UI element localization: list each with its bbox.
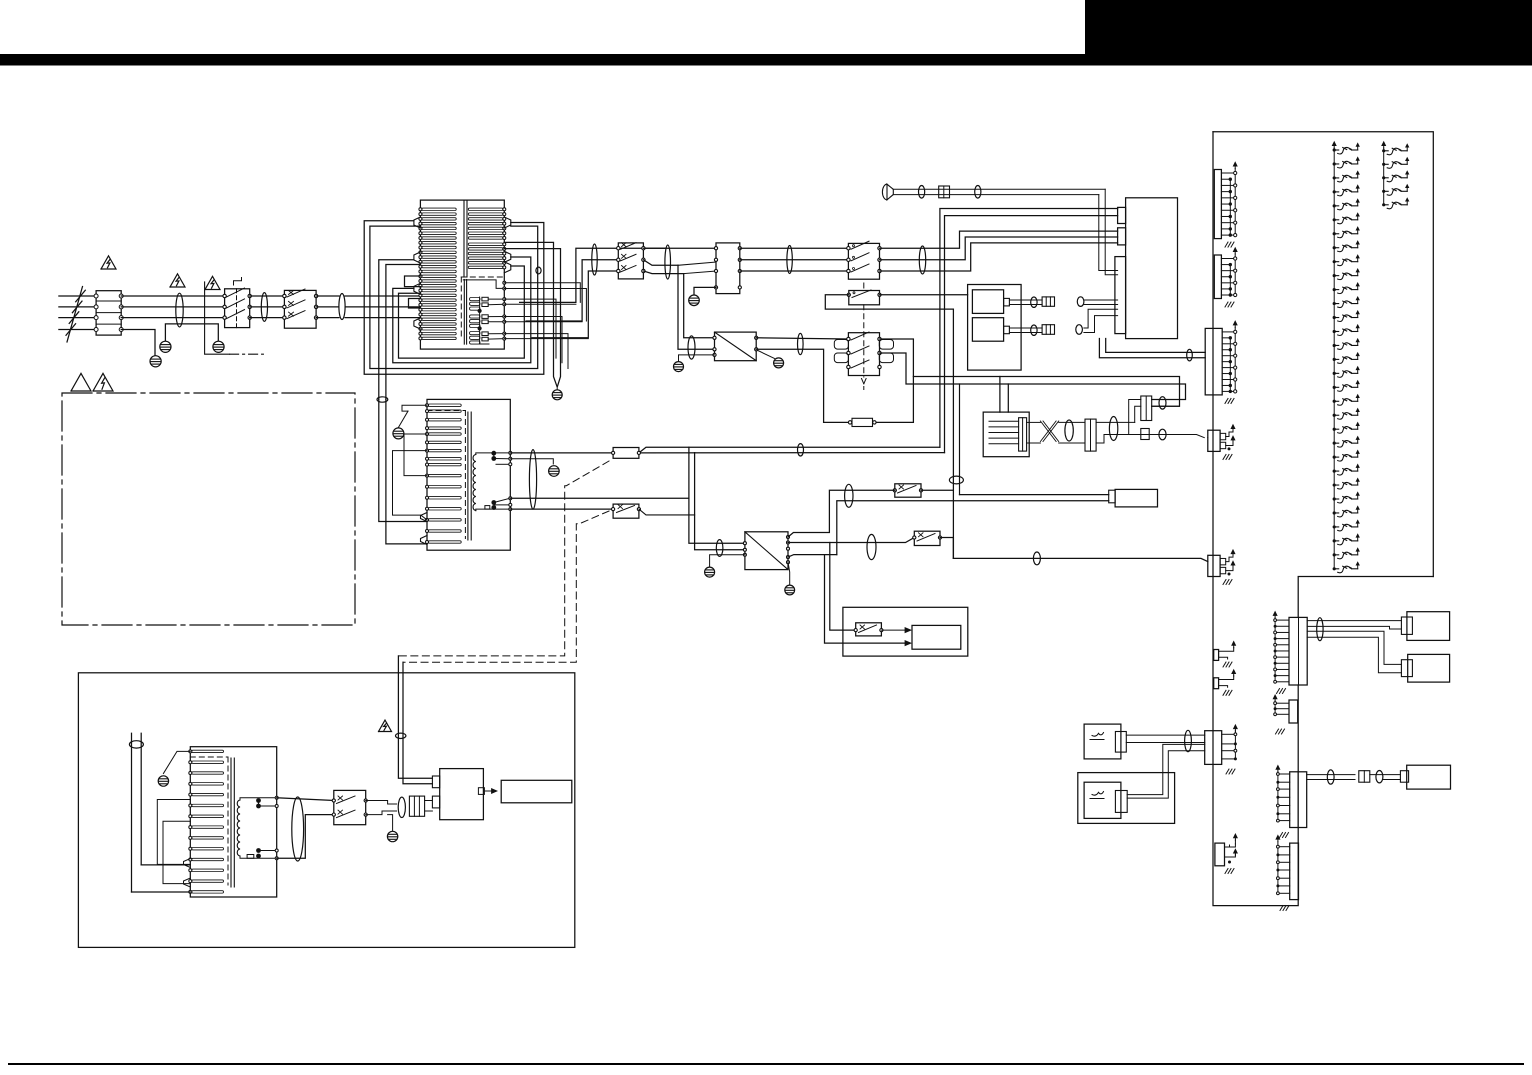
SW2 right wire to interlock box <box>880 294 968 296</box>
cable break ticks <box>76 290 86 302</box>
cable marker E31 <box>1376 771 1383 783</box>
interlock window A <box>972 290 1003 314</box>
T1 secondary output risers to breaker chain <box>520 248 665 302</box>
fuse holder FH2 <box>1042 325 1054 335</box>
U1 output port <box>478 788 484 795</box>
CB2 output wires <box>643 247 716 249</box>
T2 secondary wires to switches <box>510 452 613 454</box>
ground electrode GND9 <box>158 776 168 786</box>
SW6 output diagonal <box>639 509 695 515</box>
circuit breaker CB1 <box>284 290 316 328</box>
spare connector CN-K <box>1215 843 1225 866</box>
window A harness <box>1009 299 1042 301</box>
T3 core lines <box>230 758 232 887</box>
T1 heater output wires <box>488 298 504 300</box>
option switch pair SW7 <box>334 790 366 824</box>
aux contact switch SW2 <box>849 291 880 305</box>
motor unit MU1 <box>1407 765 1451 789</box>
cable marker E35 <box>716 540 723 557</box>
fuse holder FH1 <box>1042 297 1054 306</box>
CN-F harness <box>1307 620 1401 622</box>
wire L1-L3 to filter <box>121 295 224 297</box>
PU1 harness <box>1126 734 1204 736</box>
fan circuit wires upper <box>959 384 961 495</box>
mains input lines with cable slashes <box>59 295 96 297</box>
cable break long slash <box>67 287 83 343</box>
cable marker E6 <box>787 246 792 274</box>
contactor socket flags <box>834 340 848 350</box>
T1 primary tap wedges (left) <box>414 217 421 228</box>
fan switch out <box>921 489 953 491</box>
cable marker E20 <box>845 484 853 507</box>
inline connector DB2 <box>1141 396 1152 421</box>
heater feed arrows <box>881 629 905 631</box>
T3 secondary coil <box>237 800 240 856</box>
SSR input wire 3 to ground <box>679 355 715 361</box>
M1 feed wires from contactor <box>880 353 1186 400</box>
SSR earth diagonal <box>758 351 775 359</box>
header title block (black) <box>1085 0 1532 56</box>
option unit enclosure <box>78 673 574 948</box>
window B harness <box>1009 327 1042 329</box>
cable marker E15 <box>1065 420 1073 441</box>
cable marker E7 <box>919 246 925 274</box>
ground electrode GND10 <box>387 831 397 841</box>
T1 coil bus <box>479 297 481 344</box>
T1 heater wires to bus <box>504 299 556 358</box>
warning triangle (plain) <box>71 373 91 391</box>
control bus pair (top link) <box>940 209 1118 448</box>
cable marker E5 <box>665 245 671 279</box>
SSR2 earth <box>788 562 790 584</box>
link wires from relay board <box>639 447 940 453</box>
lamp feed droppers <box>689 447 745 543</box>
door heater drop B <box>825 555 906 644</box>
cable marker E21 <box>867 534 876 559</box>
T1 thermal fuses <box>482 297 488 301</box>
cable marker E34 <box>798 444 804 456</box>
T3 bottom taps <box>240 856 277 858</box>
ground electrode GND6 <box>674 362 684 372</box>
SSR2 out to motor connector <box>788 555 837 558</box>
cable marker E22 <box>1033 552 1040 565</box>
option control unit U1 <box>440 769 484 820</box>
T2 core lines <box>467 412 469 540</box>
footer rule line <box>8 1063 1524 1065</box>
cable marker E32 <box>1031 297 1037 307</box>
SW2 left loop wire <box>825 295 953 559</box>
PS1 connector tab CN3 <box>1115 257 1126 334</box>
cable marker E9 <box>975 186 981 199</box>
T1 primary winding left stack <box>422 208 456 210</box>
door link dashed lines <box>398 461 609 656</box>
warning triangle (shock) at relay <box>205 276 220 289</box>
cable marker E16 <box>1109 417 1117 441</box>
breaker CB2 <box>618 243 643 279</box>
FL2 output wires <box>740 247 849 249</box>
T1 secondary tap wedges (right) <box>504 217 511 228</box>
machine frame outline <box>1298 577 1433 618</box>
motor connector box MB1 <box>1115 489 1157 507</box>
window B wires stepped to connector <box>1084 309 1118 328</box>
cable marker E33 <box>1031 325 1037 335</box>
cable marker E25 (horizontal) <box>129 741 143 748</box>
PU2 harness risers <box>1127 744 1205 794</box>
T2 tap wires left <box>393 451 428 520</box>
header rule bar (black) <box>0 54 1532 66</box>
T3 tap wires <box>157 800 190 865</box>
ground electrode GND2 <box>160 341 171 352</box>
pump unit PU2 <box>1084 782 1121 818</box>
spare connector CN-J <box>1290 843 1299 900</box>
U1 tab A <box>432 776 439 788</box>
crossover wires <box>1040 421 1056 442</box>
T3 output wires <box>277 798 334 801</box>
cable marker on T2 feed <box>377 397 388 402</box>
heater contactor K1 <box>848 333 879 376</box>
lamp column 1 switches <box>1333 148 1336 151</box>
T1 tap junction dots <box>478 309 482 313</box>
heater connector CN-I <box>1290 772 1307 828</box>
SSR feed drop wires <box>678 265 715 349</box>
ground electrode GND11 <box>774 358 784 368</box>
cable marker E24 (horizontal) <box>396 733 406 738</box>
ground electrode GND13 <box>705 567 715 577</box>
T2 primary winding stack <box>428 404 461 406</box>
ground electrode GND5 <box>689 295 700 306</box>
T1 primary tap bundle left/bottom wrap <box>364 221 544 375</box>
T2 secondary top taps <box>476 453 511 455</box>
SSR2 out to fan switch <box>788 490 895 537</box>
arrow to display <box>484 790 494 792</box>
sensor connector CN-D <box>1208 430 1220 451</box>
DC power supply block PS1 <box>1126 198 1178 339</box>
cable marker E11 <box>798 333 804 354</box>
contactor link dashed + fuse loop <box>863 283 865 291</box>
T3 top taps <box>240 798 277 800</box>
cable marker E10 <box>688 336 695 359</box>
lamp connector CN-B <box>1214 255 1221 299</box>
fan unit FM2 <box>1408 654 1450 682</box>
warning triangle (shock) at option feed <box>379 720 392 731</box>
T2 tap wedges <box>421 513 428 522</box>
SW7 output wires <box>366 801 397 805</box>
solid state relay SSR2 <box>745 532 788 570</box>
cable marker E29 <box>1185 730 1192 751</box>
cable marker E26 (T3 out) <box>292 797 304 861</box>
cable marker E8 <box>919 186 925 199</box>
thermostat sensor horn <box>887 184 893 200</box>
T3 shield dashed <box>190 756 228 758</box>
fan unit FM1 <box>1407 612 1450 641</box>
window B plug <box>1004 326 1010 334</box>
earth link wire <box>165 324 218 341</box>
thermal cutout SW5 <box>613 448 639 459</box>
cable marker E12 <box>1077 297 1084 307</box>
cable marker E30 <box>1327 770 1334 784</box>
warning triangle (shock) <box>93 373 113 391</box>
T1 inner core lines <box>463 280 465 345</box>
PS1 connector tab CN1 <box>1118 207 1126 223</box>
window A wires to connector <box>1084 299 1118 301</box>
wires to transformer primary <box>316 295 339 297</box>
output connector CN-F <box>1289 617 1307 685</box>
inline connector bars <box>1359 771 1370 783</box>
cable marker E4 <box>592 244 597 275</box>
T2 secondary coil <box>473 455 476 511</box>
noise filter FL2 <box>716 243 740 294</box>
ground electrode GND8 <box>549 466 560 477</box>
PS1 output drop wires <box>1106 339 1206 353</box>
thermal fuse F1 loop <box>874 339 913 422</box>
option unit boundary box (dash-dot) <box>62 393 355 625</box>
lamp line to connector <box>953 558 1207 561</box>
interlock window B <box>972 318 1003 342</box>
motor lower wire <box>837 501 1109 555</box>
cable marker E23 (T2 secondary) <box>529 450 536 510</box>
lower branch connector <box>1141 429 1149 440</box>
cable marker E14 <box>1187 349 1193 361</box>
main relay RY1 <box>225 289 250 328</box>
SW7 earth drop <box>388 815 393 831</box>
upper branch riser <box>1135 406 1141 422</box>
lamp connector CN-A <box>1214 170 1221 239</box>
M1 plug <box>1019 418 1027 451</box>
interlock module frame <box>968 285 1022 371</box>
door heater load <box>912 625 961 649</box>
lamp column 2 bus <box>1383 143 1385 148</box>
motor module M1 <box>983 412 1029 457</box>
CN-I harness <box>1307 774 1355 776</box>
M1 connector bars <box>1085 419 1096 451</box>
cable marker E28 <box>1317 618 1323 641</box>
PS1 connector tab CN2 <box>1118 228 1126 245</box>
sensor connector CN-E <box>1208 555 1220 576</box>
T1 core lines <box>463 201 465 277</box>
T3 tap wedges <box>184 859 191 868</box>
cable marker E27 <box>398 797 405 817</box>
T3 input stubs <box>131 733 133 892</box>
thermal cutout SW6 <box>613 504 639 518</box>
terminal block TB1 <box>96 291 121 335</box>
T3 primary stack <box>192 750 224 752</box>
power switch SW1 <box>848 243 879 279</box>
T1 heater secondary coils <box>470 298 481 301</box>
T1 aux wires <box>504 283 580 303</box>
door heater drop A <box>830 543 856 631</box>
ground electrode GND3 <box>213 341 224 352</box>
warning triangle (shock) at filter <box>170 274 185 287</box>
option connector bars <box>409 796 424 816</box>
warning triangle (shock) above input <box>101 256 116 269</box>
ground electrode GND1 <box>150 356 161 367</box>
CN-D feed wire <box>1207 437 1209 439</box>
U1 tab B <box>432 796 439 808</box>
display unit V1 <box>501 780 572 803</box>
T2 primary earth <box>402 405 427 411</box>
lamp switch SW4 <box>914 531 940 545</box>
spare tab connector CN-L2 <box>1214 678 1219 689</box>
cable marker on T1 tap <box>536 267 541 274</box>
sensor connector <box>939 186 950 198</box>
SSR output wires <box>756 338 848 339</box>
ground electrode GND4 <box>552 390 562 400</box>
sensor twin line <box>893 188 1105 190</box>
relay contact symbol <box>234 278 242 286</box>
door heater switch SW8 <box>856 623 882 636</box>
main transformer T1 body <box>420 200 504 349</box>
ground electrode GND7 <box>393 428 404 439</box>
sensor drop wires <box>1105 189 1117 274</box>
cable marker E3 <box>339 294 345 320</box>
option transformer T3 body <box>190 747 276 897</box>
T1 shield dashed boundary <box>461 276 503 278</box>
T1 secondary winding right stack <box>468 208 503 210</box>
fan switch SW3 <box>895 484 921 497</box>
link drop wires into option box <box>398 656 432 778</box>
lamp connector CN-C <box>1205 328 1222 395</box>
FL2 earth wire <box>694 287 716 294</box>
cable marker E13 <box>1076 325 1083 335</box>
ground electrode GND12 <box>785 585 795 595</box>
wire N to earth <box>121 330 155 356</box>
cable marker E2 <box>261 293 267 322</box>
cable marker E1 <box>176 293 183 327</box>
lamp column 1 bus <box>1333 143 1335 148</box>
pump unit PU1 <box>1084 724 1121 759</box>
T1 aux winding circles <box>503 281 506 284</box>
T2 mid tap earth <box>510 459 553 464</box>
T1 shield drains to ground funnel <box>504 242 557 386</box>
phase risers to DC block <box>880 231 1118 248</box>
fan tap join wire <box>510 497 689 499</box>
cable marker E19 (horizontal) <box>949 476 963 484</box>
SSR2 out to lamp switch <box>788 538 914 543</box>
aux connector CN-G <box>1289 700 1298 723</box>
solid state relay SSR1 <box>715 332 757 361</box>
cable marker E17 <box>1159 397 1166 409</box>
control transformer T2 body <box>427 399 510 550</box>
chassis boundary dash-dot <box>205 282 230 354</box>
pump connector CN-H <box>1205 731 1222 765</box>
T1 inner aux wire <box>463 280 503 289</box>
wires to breaker <box>250 295 285 297</box>
T2 shield dashed <box>427 410 465 412</box>
door heater box <box>843 607 968 656</box>
T3 primary earth <box>163 751 190 773</box>
T1 winding group jumpers <box>405 276 421 287</box>
pump unit PU2 enclosure <box>1078 773 1175 824</box>
SSR2 pin3 earth <box>710 555 745 567</box>
window A plug <box>1004 298 1010 306</box>
cable marker E18 <box>1159 429 1166 440</box>
lamp column 2 switches <box>1382 149 1385 152</box>
T2 secondary bottom taps <box>476 509 511 511</box>
spare tab connector CN-L1 <box>1214 650 1219 661</box>
